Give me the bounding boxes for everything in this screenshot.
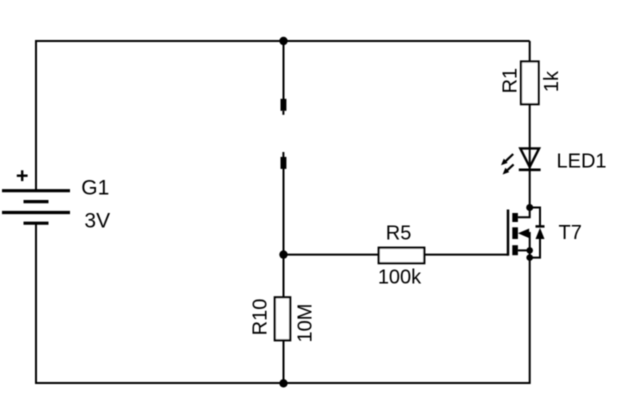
svg-text:R10: R10 (250, 299, 272, 336)
LED LED1 (501, 148, 541, 175)
junction node bottom (279, 379, 287, 387)
svg-text:T7: T7 (559, 222, 582, 244)
transistor T7 (508, 208, 530, 258)
junction source a (526, 247, 533, 254)
wire R5 left (284, 254, 380, 256)
resistor R10 (275, 297, 290, 340)
junction source b (526, 254, 533, 261)
wire gate (424, 254, 508, 256)
resistor R5 (379, 248, 425, 264)
wire top rail (36, 40, 530, 42)
junction node top (279, 37, 287, 45)
svg-text:G1: G1 (81, 177, 109, 200)
junction drain (526, 204, 533, 211)
touch contact pad lower (281, 152, 287, 169)
touch contact pad upper (281, 99, 287, 115)
wire LED to T7 (529, 170, 531, 208)
svg-text:LED1: LED1 (557, 150, 607, 172)
svg-text:100k: 100k (378, 267, 422, 289)
svg-text:10M: 10M (295, 304, 317, 343)
wire bottom rail (36, 382, 530, 384)
wire left rail upper (35, 40, 37, 191)
svg-text:3V: 3V (84, 210, 110, 233)
svg-text:R5: R5 (386, 223, 412, 245)
junction node middle (279, 250, 287, 258)
wire left rail lower (35, 223, 37, 384)
wire right rail top (529, 41, 531, 62)
wire R10 bottom (283, 340, 285, 383)
wire source to bottom rail (529, 258, 531, 384)
svg-text:R1: R1 (500, 68, 522, 94)
wire middle to R10 (283, 255, 285, 298)
wire middle upper (283, 41, 285, 100)
svg-text:1k: 1k (541, 70, 563, 92)
wire R1 to LED (529, 104, 531, 149)
body diode of T7 (530, 208, 545, 258)
battery G1 (2, 170, 70, 223)
resistor R1 (521, 62, 539, 105)
wire middle lower (283, 169, 285, 256)
